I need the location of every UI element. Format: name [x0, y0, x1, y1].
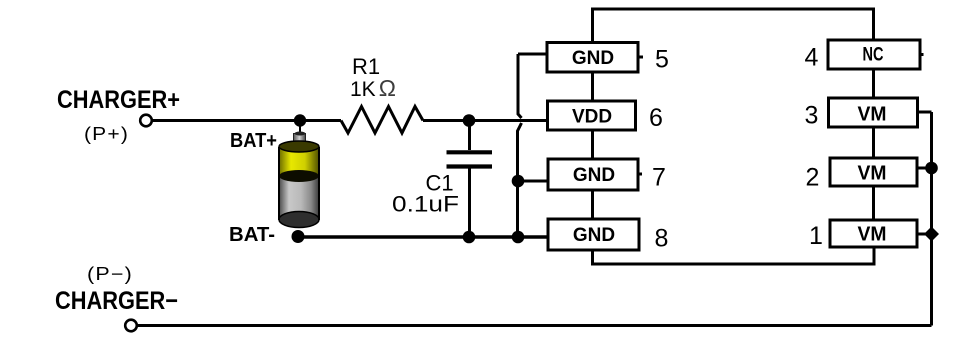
svg-text:GND: GND: [573, 225, 615, 246]
svg-text:8: 8: [655, 225, 669, 253]
svg-text:1KΩ: 1KΩ: [350, 75, 396, 101]
svg-text:VM: VM: [858, 103, 887, 125]
pin GND5 stub right: [638, 56, 643, 59]
wire GND7 stub: [518, 180, 548, 183]
svg-text:VM: VM: [858, 224, 887, 246]
wire R1 to VDD pin: [423, 119, 548, 122]
terminal CHARGER-: [125, 320, 137, 332]
svg-text:0.1uF: 0.1uF: [392, 192, 459, 217]
pin box VM 3: [829, 98, 918, 127]
pin box VDD 6: [548, 101, 636, 130]
svg-text:BAT-: BAT-: [229, 224, 275, 246]
node VM1 right junction: [924, 227, 939, 242]
pin NC4 stub right: [920, 53, 924, 56]
wire NC4 to VM3: [872, 69, 875, 98]
svg-text:GND: GND: [573, 165, 615, 186]
svg-text:CHARGER+: CHARGER+: [57, 86, 180, 114]
wire GND8 bottom to VM1 bottom (bottom rail): [593, 247, 875, 264]
wire VM1 stub: [917, 233, 932, 236]
pin box GND 7: [548, 159, 638, 190]
svg-text:7: 7: [652, 164, 666, 192]
svg-text:3: 3: [805, 102, 819, 130]
wire CHARGER+ to R1: [153, 119, 342, 122]
svg-text:VM: VM: [858, 162, 887, 184]
wire VDD6 to GND7: [591, 130, 594, 159]
node C1 top junction: [463, 114, 476, 127]
wire GND5 left bracket: [518, 53, 547, 56]
pin box VM 2: [830, 158, 917, 186]
pin box GND 5: [547, 43, 638, 73]
wire bottom rail BAT- to GND8: [298, 235, 548, 238]
svg-text:5: 5: [655, 46, 669, 74]
svg-text:VDD: VDD: [572, 107, 612, 128]
wire right bus vertical VM3 to CHARGER- rail: [930, 112, 933, 326]
wire CHARGER- to right bus: [138, 324, 932, 327]
wire GND5 top to NC4 top (top rail): [593, 9, 874, 42]
node battery positive junction: [294, 114, 306, 126]
battery BT1: [279, 126, 319, 228]
pin box NC 4: [828, 40, 920, 69]
node GND7 junction: [512, 175, 525, 188]
wire VM3 stub to right bus: [918, 111, 932, 114]
resistor R1: [341, 107, 423, 134]
svg-text:1: 1: [809, 222, 823, 250]
pin box GND 8: [548, 219, 639, 250]
node ground bus bottom junction: [512, 231, 525, 244]
svg-text:CHARGER−: CHARGER−: [55, 287, 178, 315]
svg-text:2: 2: [806, 164, 820, 192]
svg-text:(P+): (P+): [84, 124, 129, 144]
svg-text:BAT+: BAT+: [230, 130, 277, 152]
node battery negative junction: [292, 230, 305, 243]
wire GND5 to VDD6: [591, 72, 594, 101]
svg-text:R1: R1: [352, 54, 380, 79]
terminal CHARGER+: [140, 115, 152, 127]
svg-text:(P−): (P−): [87, 264, 133, 284]
svg-text:6: 6: [649, 104, 663, 132]
svg-text:4: 4: [805, 44, 819, 72]
wire ground bus vertical (GND5 bracket to bottom rail, hops over VDD wire): [518, 54, 522, 237]
svg-text:GND: GND: [572, 48, 614, 69]
wire VM3 to VM2: [872, 127, 875, 158]
node C1 bottom junction: [463, 231, 476, 244]
pin GND7 stub right: [638, 173, 642, 176]
capacitor C1: [447, 121, 493, 238]
wire GND7 to GND8: [591, 190, 594, 219]
node VM2 right junction: [925, 162, 938, 175]
pin box VM 1: [830, 220, 917, 247]
wire VM2 to VM1: [872, 186, 875, 220]
svg-text:NC: NC: [863, 45, 884, 66]
wire VM2 stub: [917, 167, 932, 170]
